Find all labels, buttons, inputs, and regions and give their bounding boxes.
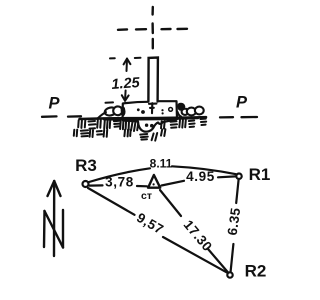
svg-text:9,57: 9,57 — [134, 210, 166, 237]
svg-text:1.25: 1.25 — [111, 75, 141, 93]
svg-text:ст: ст — [141, 190, 152, 202]
svg-text:6.35: 6.35 — [225, 206, 244, 236]
svg-text:R2: R2 — [245, 261, 267, 280]
svg-text:3,78: 3,78 — [105, 175, 134, 190]
svg-text:P: P — [236, 94, 248, 112]
svg-text:4.95: 4.95 — [186, 169, 215, 184]
svg-text:P: P — [49, 95, 61, 113]
svg-text:R1: R1 — [249, 165, 271, 184]
svg-text:8.11: 8.11 — [150, 156, 173, 170]
svg-text:R3: R3 — [75, 156, 97, 175]
